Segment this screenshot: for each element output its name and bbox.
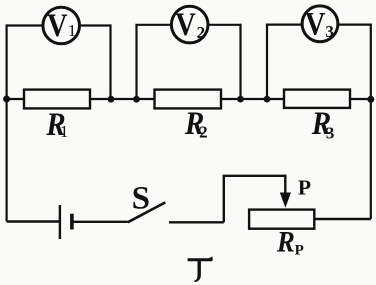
wire R1 to R2 (90, 98, 155, 100)
wiper arrow shaft (284, 175, 286, 195)
rheostat RP (249, 210, 314, 229)
svg-text:V: V (175, 7, 196, 43)
wire to V3 (266, 24, 303, 26)
wire vertical down to node A (109, 24, 111, 99)
node A2 junction dot (133, 96, 140, 103)
svg-text:R: R (276, 226, 295, 259)
wire bottom-left to battery (7, 220, 59, 222)
wire top-left to V1 (6, 24, 44, 26)
node left junction dot (3, 96, 10, 103)
resistor R2 (155, 90, 222, 109)
wire left vertical (5, 26, 7, 222)
svg-text:S: S (132, 180, 150, 216)
node B junction dot (237, 96, 244, 103)
svg-text:P: P (298, 175, 311, 199)
node B2 junction dot (264, 96, 271, 103)
wire to V2 (135, 24, 171, 26)
wire riser vertical (223, 176, 225, 223)
svg-text:P: P (295, 243, 304, 259)
svg-text:V: V (47, 8, 68, 44)
resistor R1 (24, 90, 90, 109)
voltmeter V3 (302, 6, 338, 42)
wire right vertical (370, 24, 372, 220)
wire riser horizontal (223, 175, 286, 177)
wire V1 to node A (80, 24, 111, 26)
wire V2 to node B (208, 24, 241, 26)
node right junction dot (367, 96, 374, 103)
wire R2 to R3 (221, 98, 284, 100)
svg-text:2: 2 (197, 23, 206, 42)
svg-text:1: 1 (68, 21, 77, 40)
wire RP to right edge (314, 218, 371, 220)
node A junction dot (108, 96, 115, 103)
wire V3 to right edge (337, 24, 371, 26)
caption glyph (188, 257, 213, 282)
wire vertical down to node B (239, 24, 241, 99)
wiper arrow head (280, 193, 291, 208)
svg-text:1: 1 (60, 122, 69, 141)
resistor R3 (284, 90, 350, 108)
wire battery to switch (73, 221, 128, 223)
wire vertical node B up to V3 branch (266, 25, 268, 99)
svg-text:2: 2 (199, 123, 208, 142)
battery short plate (70, 214, 74, 230)
svg-text:3: 3 (325, 22, 334, 41)
svg-text:V: V (305, 6, 326, 42)
switch S lever (128, 202, 166, 222)
voltmeter V2 (171, 6, 208, 43)
wire R3 to right edge (350, 98, 371, 100)
wire switch to riser (169, 221, 224, 223)
voltmeter V1 (43, 7, 80, 44)
svg-text:3: 3 (326, 123, 335, 142)
wire vertical node A up to V2 branch (135, 25, 137, 99)
wire left node to R1 (7, 98, 24, 100)
battery long plate (59, 205, 61, 239)
